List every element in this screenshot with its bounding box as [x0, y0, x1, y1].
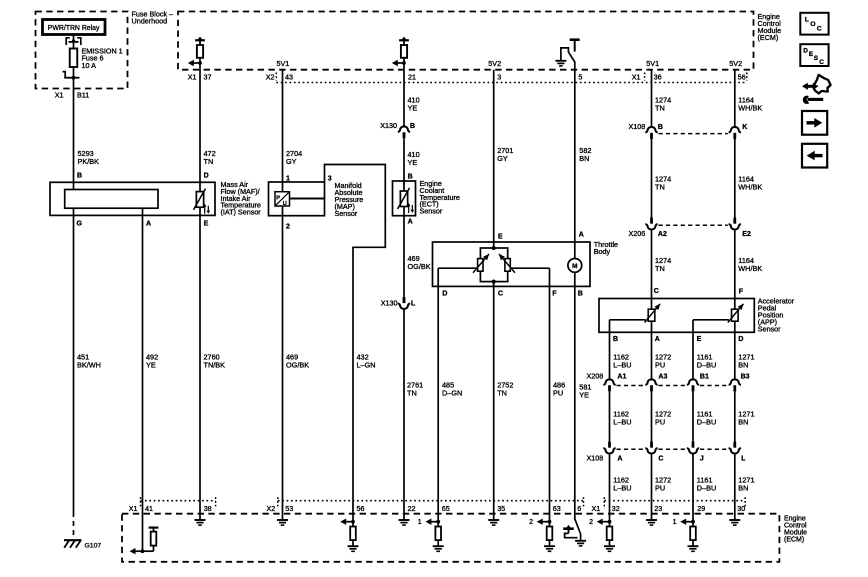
icon next arrow button	[802, 111, 827, 135]
wire label 410 YE lower	[408, 150, 420, 167]
svg-text:D: D	[803, 47, 808, 54]
wire label 1161 D-BU row2	[697, 410, 716, 427]
engine control module top dashed box	[178, 12, 754, 70]
svg-text:65: 65	[442, 504, 450, 513]
wire X208 B3 to X108 L	[734, 391, 736, 441]
wire throttle B to pin 6	[574, 286, 576, 513]
svg-text:56: 56	[738, 73, 746, 82]
fuse block label	[132, 10, 174, 26]
wire label 1162 L-BU row1	[613, 353, 631, 370]
MAP internal wire to pin 3	[290, 198, 325, 200]
MAP pin numbers	[286, 175, 332, 230]
svg-text:X130: X130	[380, 121, 397, 130]
svg-text:X108: X108	[629, 122, 646, 131]
wire label 1271 BN row3	[738, 476, 754, 493]
label 3 top	[497, 73, 501, 82]
svg-text:BN: BN	[738, 484, 748, 493]
X206 dashed link	[659, 224, 728, 226]
wire label 1164 WH/BK row3	[738, 256, 762, 273]
bottom connector dotted strip X1 right	[604, 500, 745, 502]
svg-text:U: U	[283, 201, 287, 207]
svg-text:A: A	[617, 456, 622, 463]
ECT sensor label	[420, 179, 460, 216]
svg-text:X1: X1	[632, 73, 641, 82]
svg-text:OG/BK: OG/BK	[286, 361, 309, 370]
wire ECT A to X130 L	[403, 207, 405, 297]
svg-text:D: D	[738, 336, 743, 343]
wire APP D to X208 B3	[734, 332, 736, 379]
svg-text:X1: X1	[592, 504, 601, 513]
bottom connector tick X2	[277, 497, 279, 508]
wire label 1271 BN row1	[738, 353, 754, 370]
svg-text:Body: Body	[594, 247, 611, 256]
throttle pin letters bottom	[442, 290, 582, 297]
label X130 L	[381, 299, 416, 308]
svg-text:GY: GY	[497, 154, 508, 163]
MAP pin 2 stub	[282, 206, 284, 216]
wire throttle D to pin 65	[437, 286, 439, 500]
wire label 451 BK/WH	[77, 353, 101, 370]
MAP pin 1 stub	[282, 182, 284, 191]
svg-text:P: P	[276, 195, 280, 201]
svg-text:30: 30	[737, 504, 745, 513]
svg-text:C: C	[658, 456, 663, 463]
MAF pin E stub	[199, 207, 201, 215]
svg-text:O: O	[810, 21, 815, 28]
svg-text:G: G	[77, 221, 83, 228]
APP pin letters top	[654, 288, 744, 296]
connector bracket below relay	[66, 38, 81, 45]
MAF pin letters	[77, 173, 209, 228]
ECM pin 65 internal pull-down	[418, 501, 444, 552]
wire MAF G to G107	[73, 215, 75, 512]
ground G107 symbol	[64, 540, 82, 548]
ECM pin 22 ground	[399, 501, 410, 525]
wire pin 3 to throttle E	[493, 70, 495, 243]
IAT thermistor	[194, 189, 211, 214]
label X2 43 top	[266, 73, 293, 82]
svg-text:Sensor: Sensor	[335, 209, 358, 218]
svg-text:A: A	[408, 219, 413, 226]
label 5V2 right	[729, 59, 742, 68]
relay K1 PWR/TRN	[43, 20, 106, 35]
wire X206 E2 to APP F	[734, 230, 736, 310]
TP sensor resistor 1	[478, 259, 483, 272]
svg-text:TN: TN	[655, 183, 665, 192]
svg-text:37: 37	[204, 73, 212, 82]
svg-text:D–GN: D–GN	[442, 389, 462, 398]
svg-text:A1: A1	[617, 374, 626, 381]
svg-text:BN: BN	[579, 154, 589, 163]
throttle body label	[594, 240, 618, 256]
svg-text:PU: PU	[655, 484, 665, 493]
throttle TP sensor inner box	[480, 248, 507, 282]
bottom connector dotted strip X1 left	[141, 500, 216, 502]
bottom connector tick 30 end	[744, 497, 746, 508]
wire throttle C to pin 35	[493, 286, 495, 500]
svg-text:1: 1	[286, 175, 290, 182]
svg-text:36: 36	[654, 73, 662, 82]
label 5V1 right	[646, 59, 659, 68]
svg-text:YE: YE	[408, 158, 418, 167]
connector X130 L	[398, 297, 410, 309]
svg-text:L–BU: L–BU	[613, 418, 631, 427]
svg-text:YE: YE	[408, 104, 418, 113]
connector X208 A3	[645, 379, 657, 391]
wire label 486 PU	[553, 381, 565, 398]
connector X206 A2	[645, 218, 657, 230]
svg-text:D: D	[204, 173, 209, 180]
wire label 1272 PU row2	[655, 410, 671, 427]
wire X130 L to pin 22	[403, 309, 405, 501]
wire APP E to X208 B1	[692, 332, 694, 379]
throttle wiper wire left	[438, 267, 477, 269]
APP E internal stub	[692, 320, 694, 333]
svg-text:TN/BK: TN/BK	[204, 361, 226, 370]
APP pin letters bottom	[613, 336, 743, 343]
svg-text:B: B	[613, 336, 618, 343]
svg-text:BN: BN	[738, 361, 748, 370]
svg-text:5V2: 5V2	[488, 59, 501, 68]
TP sensor resistor 2	[505, 259, 510, 272]
svg-text:X108: X108	[587, 454, 604, 463]
MAF pin B stub	[73, 182, 75, 189]
wire APP A to X208 A3	[651, 332, 653, 379]
label 21 top	[408, 73, 416, 82]
svg-text:PWR/TRN Relay: PWR/TRN Relay	[48, 25, 100, 32]
svg-text:22: 22	[408, 504, 416, 513]
label 5 top	[578, 73, 582, 82]
label 29 bottom	[697, 504, 705, 513]
wire X108 K to X206 E2	[734, 139, 736, 218]
wire throttle F to pin 63	[549, 286, 551, 500]
svg-text:C: C	[654, 288, 659, 295]
ECM pin 29 internal pull-down	[673, 501, 699, 552]
wire label 492 YE	[146, 353, 158, 370]
wire X208 B1 to X108 J	[692, 391, 694, 441]
svg-text:L: L	[741, 456, 746, 463]
label 22 bottom	[408, 504, 416, 513]
svg-text:YE: YE	[579, 391, 589, 400]
svg-text:(ECM): (ECM)	[758, 33, 779, 42]
svg-text:E: E	[498, 233, 503, 240]
svg-text:BN: BN	[738, 418, 748, 427]
svg-text:TN: TN	[407, 389, 417, 398]
svg-text:32: 32	[612, 504, 620, 513]
connector X108 J	[687, 442, 699, 454]
throttle C internal stub	[493, 282, 495, 287]
wire pin 37 to MAF D	[199, 70, 201, 184]
APP sensor box	[599, 299, 754, 333]
wire label 469 OG/BK left	[286, 353, 309, 370]
wire label 2760 TN/BK	[204, 353, 226, 370]
ECM pin 35 ground	[488, 501, 499, 525]
svg-text:35: 35	[497, 504, 505, 513]
svg-text:5V1: 5V1	[277, 59, 290, 68]
svg-text:Sensor: Sensor	[420, 207, 443, 216]
icon harness routing	[802, 75, 831, 104]
svg-text:BK/WH: BK/WH	[77, 361, 101, 370]
svg-text:PU: PU	[655, 418, 665, 427]
svg-text:A: A	[146, 221, 151, 228]
icon DESC button	[800, 44, 828, 66]
wire relay to bracket	[73, 35, 75, 40]
wire label 1274 TN row3	[655, 256, 671, 273]
wire label 1274 TN row1	[655, 96, 671, 113]
connector X108 K	[729, 127, 741, 139]
svg-text:WH/BK: WH/BK	[738, 104, 762, 113]
MAF/IAT sensor box	[50, 182, 215, 215]
connector X108 C	[645, 442, 657, 454]
svg-text:B: B	[658, 124, 663, 131]
wire label 2704 GY	[286, 149, 302, 166]
wire X208 A1 to X108 A	[609, 391, 611, 441]
wire MAF E to pin 38	[199, 215, 201, 500]
svg-text:Module: Module	[784, 530, 807, 537]
svg-text:10 A: 10 A	[82, 61, 97, 70]
fuse F6 label	[82, 47, 123, 70]
ECM pin 30 ground	[729, 501, 740, 525]
wire MAP pin 3 to pin 56 path	[325, 165, 386, 501]
svg-text:43: 43	[285, 73, 293, 82]
svg-text:2: 2	[286, 224, 290, 231]
svg-text:2: 2	[589, 519, 593, 526]
svg-text:PU: PU	[553, 389, 563, 398]
wire label 485 D-GN	[442, 381, 462, 398]
svg-text:A3: A3	[658, 374, 667, 381]
throttle node dot top	[492, 246, 496, 250]
svg-text:38: 38	[204, 504, 212, 513]
wire label 581 YE	[579, 383, 591, 400]
wire label 432 L-GN	[357, 353, 376, 370]
wire X208 A3 to X108 C	[651, 391, 653, 441]
bottom connector tick X1 right	[603, 497, 605, 508]
label X108 bottom row	[587, 454, 747, 463]
label 23 bottom	[654, 504, 662, 513]
throttle motor A stub	[574, 242, 576, 259]
throttle wiper wire right	[510, 267, 549, 269]
throttle E internal stub	[493, 242, 495, 248]
fuse block lower terminal bracket	[63, 72, 80, 80]
connector X108 A	[603, 442, 615, 454]
MAF sensor label	[221, 180, 262, 217]
wire fuse to MAF pin B	[73, 78, 75, 184]
APP resistor 2	[732, 309, 739, 321]
ECM pin 21 fuse tap	[392, 37, 409, 70]
ECM pin 53 ground	[277, 501, 288, 525]
bottom connector tick X1 left	[140, 497, 142, 508]
connector X108 L	[729, 442, 741, 454]
wire X206 A2 to APP C	[651, 230, 653, 310]
svg-text:L–GN: L–GN	[357, 361, 376, 370]
svg-text:53: 53	[285, 504, 293, 513]
ECM internal ground switch top	[555, 40, 579, 66]
throttle D internal stub	[437, 268, 439, 286]
MAF sensing element inner box	[65, 190, 158, 209]
wire label 1164 WH/BK row2	[738, 175, 762, 192]
APP wiper arrow 2	[728, 304, 744, 323]
throttle motor B stub	[574, 272, 576, 286]
connector X206 E2	[729, 218, 741, 230]
svg-text:1: 1	[418, 519, 422, 526]
svg-text:B3: B3	[741, 374, 750, 381]
label 38 bottom	[204, 504, 212, 513]
APP B internal stub	[609, 320, 611, 333]
label 6 bottom	[577, 504, 581, 513]
top connector tick X2	[275, 73, 277, 81]
ECM pin 38 ground	[195, 501, 206, 525]
svg-text:29: 29	[697, 504, 705, 513]
svg-text:A2: A2	[658, 231, 667, 238]
wire label 1272 PU row3	[655, 476, 671, 493]
svg-text:TN: TN	[655, 264, 665, 273]
svg-text:3: 3	[497, 73, 501, 82]
svg-text:B1: B1	[700, 374, 709, 381]
svg-text:(IAT) Sensor: (IAT) Sensor	[221, 208, 262, 217]
svg-text:TN: TN	[655, 104, 665, 113]
X108 bottom dashed links	[617, 448, 728, 450]
svg-text:L–BU: L–BU	[613, 484, 631, 493]
wire label 1162 L-BU row2	[613, 410, 631, 427]
TP sensor wiper arrow 2	[499, 254, 515, 273]
label X108 top	[629, 122, 748, 131]
svg-text:TN: TN	[204, 157, 214, 166]
wire X108 B to X206 A2	[651, 139, 653, 218]
wire pin 5 to throttle A	[574, 62, 576, 244]
MAP sensor label	[335, 181, 364, 218]
APP wiper arrow 1	[645, 304, 661, 323]
wire APP B to X208 A1	[609, 332, 611, 379]
label 5V1 left	[277, 59, 290, 68]
svg-text:L–BU: L–BU	[613, 361, 631, 370]
wire label 1164 WH/BK row1	[738, 96, 762, 113]
wire X108 L to pin 30	[734, 454, 736, 501]
svg-text:5V2: 5V2	[729, 59, 742, 68]
svg-text:G107: G107	[85, 542, 102, 549]
APP wiper wire E	[693, 319, 729, 321]
ECM pin 23 ground	[646, 501, 657, 525]
wire X108 C to pin 23	[651, 454, 653, 501]
APP D internal stub	[734, 321, 736, 332]
svg-text:M: M	[572, 263, 577, 270]
throttle pin letters top	[498, 232, 584, 241]
wire X108 J to pin 29	[692, 454, 694, 501]
wire label 2752 TN	[497, 381, 513, 398]
MAF pin G stub	[73, 208, 75, 215]
wire label 582 BN	[579, 146, 591, 163]
svg-text:23: 23	[654, 504, 662, 513]
svg-text:GY: GY	[286, 157, 297, 166]
engine control module bottom label	[784, 516, 807, 544]
wire label 1272 PU row1	[655, 353, 671, 370]
svg-text:D–BU: D–BU	[697, 361, 716, 370]
ECM pin 32 internal pull-down	[589, 501, 615, 552]
label 5V2 left	[488, 59, 501, 68]
label X208 row	[587, 372, 750, 381]
throttle motor M	[568, 259, 582, 273]
ECM pin 41 internal pull-up	[130, 501, 159, 555]
label G107	[85, 542, 102, 549]
ECT pin letters	[408, 174, 413, 226]
svg-text:X1: X1	[129, 504, 138, 513]
APP sensor label	[758, 297, 795, 334]
svg-text:Underhood: Underhood	[132, 17, 168, 26]
wire pin 56 to X108 K	[734, 70, 736, 127]
svg-text:OG/BK: OG/BK	[408, 262, 431, 271]
label 35 bottom	[497, 504, 505, 513]
MAP sensor box	[269, 182, 325, 216]
svg-text:1: 1	[673, 519, 677, 526]
svg-text:L: L	[805, 17, 809, 24]
ECM pin X1 37 fuse tap	[188, 37, 205, 70]
svg-text:A: A	[655, 336, 660, 343]
connector X208 A1	[603, 379, 615, 391]
ECT thermistor	[398, 188, 415, 213]
label X1 37 top	[188, 73, 212, 82]
svg-text:Sensor: Sensor	[758, 324, 781, 333]
wire label 410 YE upper	[408, 96, 420, 113]
wire label 1161 D-BU row1	[697, 353, 716, 370]
svg-text:YE: YE	[146, 361, 156, 370]
connector X208 B3	[729, 379, 741, 391]
bottom connector tick 38 end	[215, 497, 217, 508]
wire X108 A to pin 32	[609, 454, 611, 501]
MAF pin D stub	[199, 182, 201, 191]
svg-text:L: L	[411, 301, 416, 308]
TP sensor wiper arrow 1	[473, 254, 489, 273]
svg-text:D–BU: D–BU	[697, 418, 716, 427]
wire label 5293 PK/BK	[78, 149, 100, 166]
svg-text:J: J	[700, 456, 704, 463]
wire label 472 TN	[204, 149, 216, 166]
APP A internal stub	[651, 321, 653, 332]
connector X108 B	[645, 127, 657, 139]
wire label 1161 D-BU row3	[697, 476, 716, 493]
top X2/X1 connector dotted strip	[276, 82, 745, 84]
top connector tick X1	[644, 73, 646, 81]
svg-text:E2: E2	[742, 231, 751, 238]
MAF pin A stub	[142, 208, 144, 215]
bottom connector tick 6 end	[583, 497, 585, 508]
label X2 53 bottom	[267, 504, 294, 513]
svg-text:2: 2	[529, 519, 533, 526]
top connector tick end	[746, 73, 748, 81]
throttle F internal stub	[549, 268, 551, 286]
svg-text:B: B	[77, 173, 82, 180]
svg-text:A: A	[579, 232, 584, 239]
svg-text:WH/BK: WH/BK	[738, 183, 762, 192]
engine control module bottom dashed box	[122, 514, 779, 562]
svg-text:K: K	[742, 124, 747, 131]
svg-text:X2: X2	[267, 504, 276, 513]
wire X130 B to ECT	[403, 139, 405, 191]
svg-text:E: E	[697, 336, 702, 343]
svg-text:X1: X1	[55, 91, 64, 100]
fuse F6 EMISSION 1	[70, 42, 78, 78]
label 65 bottom	[442, 504, 450, 513]
svg-text:PU: PU	[655, 361, 665, 370]
label X1 32 bottom	[592, 504, 620, 513]
svg-text:PK/BK: PK/BK	[78, 157, 100, 166]
svg-text:E: E	[204, 221, 209, 228]
svg-text:F: F	[739, 289, 744, 296]
APP wiper wire B	[610, 319, 646, 321]
svg-text:5V1: 5V1	[646, 59, 659, 68]
X108 top dashed link	[659, 133, 728, 135]
wire MAP pin 2 down	[282, 216, 284, 501]
svg-text:(ECM): (ECM)	[784, 537, 804, 544]
svg-text:B: B	[408, 174, 413, 181]
